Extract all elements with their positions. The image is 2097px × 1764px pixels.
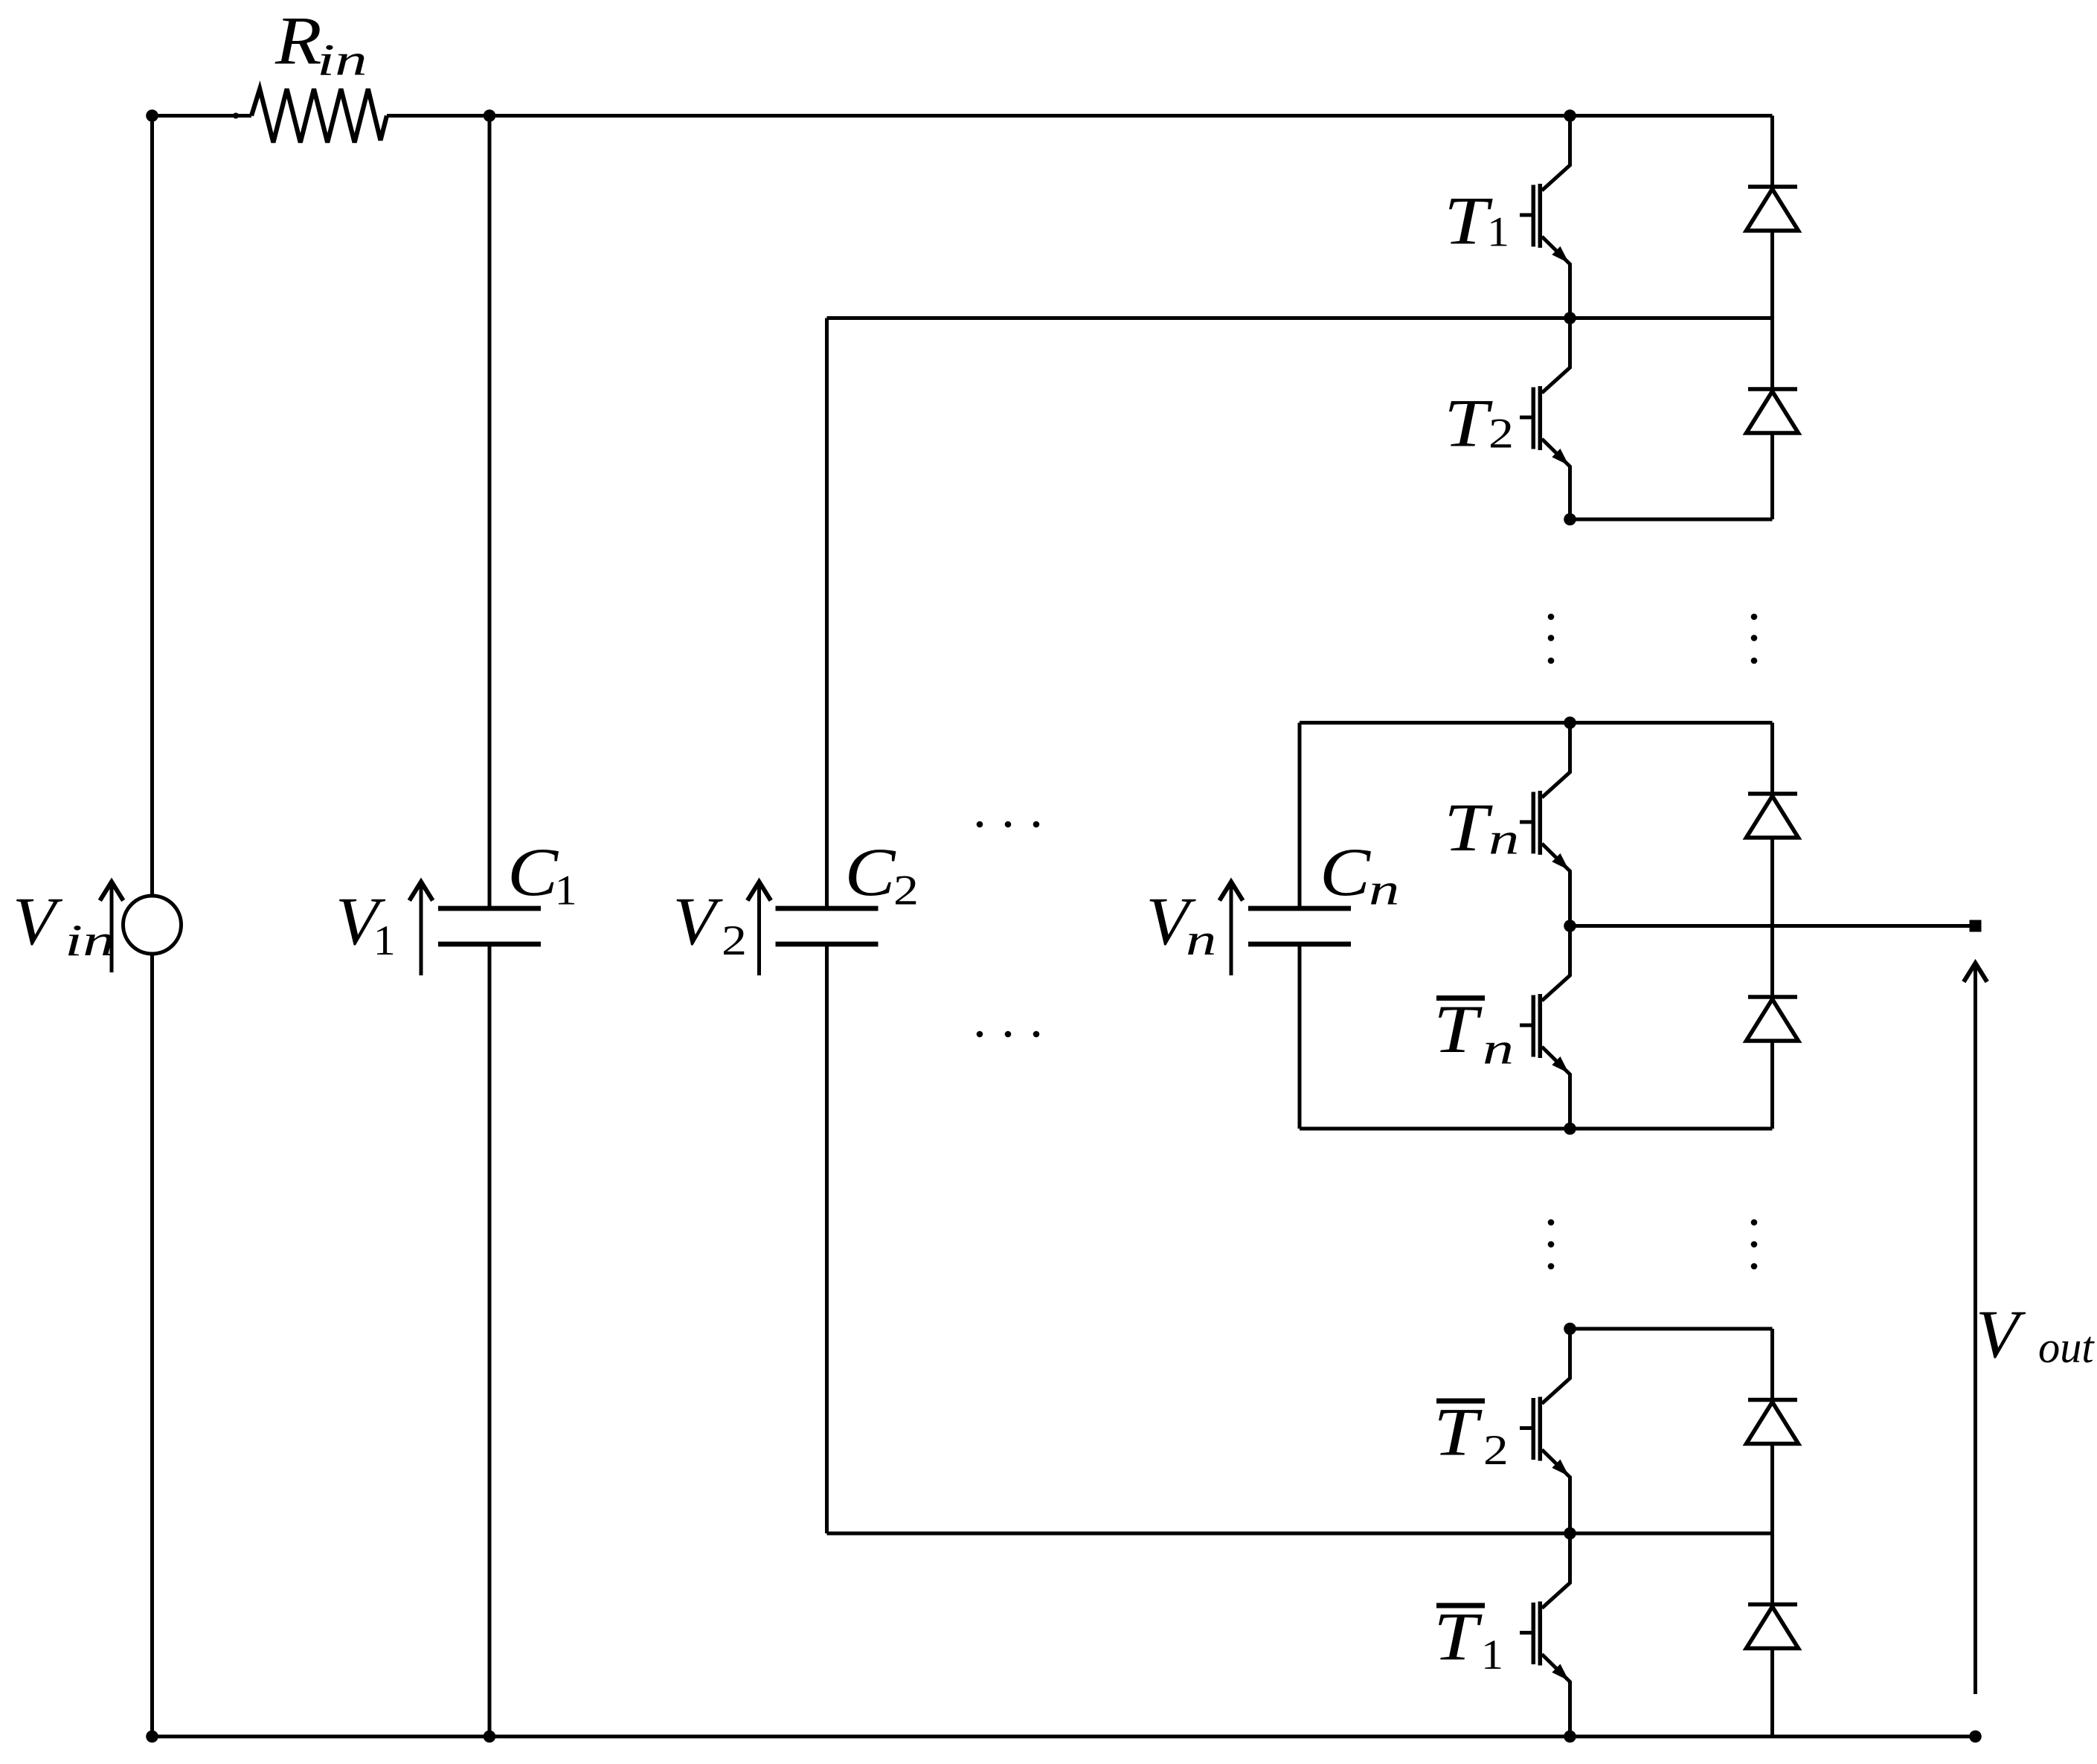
wire C2 column lower [825, 944, 829, 1533]
transistor T1 [1520, 116, 1570, 318]
svg-text:V: V [673, 883, 724, 959]
svg-text:T: T [1433, 991, 1483, 1067]
dots vertical left upper [1548, 614, 1555, 620]
svg-text:out: out [2038, 1323, 2095, 1372]
arrow V_out [1974, 966, 1977, 1695]
capacitor Cn [1248, 906, 1351, 911]
svg-text:n: n [1483, 1024, 1514, 1074]
svg-text:V: V [13, 883, 63, 959]
svg-text:2: 2 [1489, 411, 1514, 458]
wire Cn column lower [1298, 944, 1302, 1129]
label Tn-bar [1436, 995, 1485, 1001]
diode Dn-bar [1747, 926, 1799, 1129]
junction dot T2 emitter [1564, 513, 1576, 526]
wire top rail right of resistor [387, 114, 1773, 118]
transistor T1-bar [1520, 1533, 1570, 1736]
transistor Tn-bar [1520, 926, 1570, 1129]
svg-text:n: n [1369, 865, 1399, 914]
svg-text:1: 1 [1487, 209, 1509, 256]
svg-text:C: C [507, 834, 559, 910]
wire left rail upper [150, 116, 154, 897]
junction dot Tn/Tnbar [1564, 920, 1576, 932]
svg-text:V: V [1976, 1296, 2026, 1372]
wire mid rail C2-to-diode (T1/T2 junction) [827, 316, 1773, 320]
diode D2 [1747, 318, 1799, 520]
svg-text:T: T [1444, 183, 1493, 259]
wire C1 column lower [488, 944, 492, 1736]
svg-text:1: 1 [373, 917, 396, 964]
label T1-bar [1436, 1603, 1485, 1609]
svg-text:n: n [1186, 915, 1216, 964]
svg-text:1: 1 [555, 867, 577, 914]
wire output rail [1570, 924, 1973, 928]
svg-text:T: T [1444, 385, 1493, 461]
junction dot T2bar collector [1564, 1323, 1576, 1335]
junction dot T1/T2 [1564, 312, 1576, 324]
wire left rail lower [150, 954, 154, 1736]
junction dot top-left corner [146, 109, 158, 122]
transistor Tn [1520, 722, 1570, 926]
wire C1 column upper [488, 116, 492, 909]
junction dot Tnbar emitter [1564, 1123, 1576, 1135]
wire Cn box bottom rail [1300, 1127, 1773, 1131]
junction dot top rail at C1 [484, 109, 496, 122]
dots vertical right upper [1751, 614, 1758, 620]
capacitor C1 [438, 906, 541, 911]
svg-text:T: T [1433, 1394, 1483, 1470]
transistor T2-bar [1520, 1329, 1570, 1533]
diode D2-bar [1747, 1329, 1799, 1533]
svg-text:2: 2 [1483, 1427, 1509, 1474]
wire mid rail 2 C2-to-diode (T2bar/T1bar junction) [827, 1532, 1773, 1536]
label T2-bar [1436, 1399, 1485, 1404]
svg-text:T: T [1433, 1599, 1483, 1675]
arrow V1 [420, 884, 423, 975]
wire T2-bottom short rail [1570, 518, 1773, 522]
wire Cn column upper [1298, 722, 1302, 908]
wire T2bar top rail [1570, 1327, 1773, 1331]
svg-text:in: in [65, 916, 115, 965]
arrow V_in [110, 884, 114, 972]
arrow V2 [757, 884, 761, 975]
svg-text:T: T [1444, 789, 1493, 865]
wire bottom rail [150, 1735, 1976, 1739]
junction dot bottom-left corner [146, 1731, 158, 1743]
terminal dot bottom-right output [1969, 1731, 1982, 1743]
svg-text:2: 2 [722, 917, 747, 964]
svg-text:n: n [1489, 814, 1519, 863]
terminal square output [1970, 920, 1982, 932]
arrow Vn [1230, 884, 1233, 975]
svg-text:in: in [317, 36, 367, 85]
wire top rail left of resistor [150, 114, 251, 118]
capacitor C2 [776, 906, 879, 911]
diode D1-bar [1747, 1533, 1799, 1736]
source V_in circle [123, 896, 182, 954]
svg-text:R: R [274, 3, 322, 79]
dots vertical left lower [1548, 1219, 1555, 1226]
resistor R_in [251, 89, 387, 143]
wire C2 column upper [825, 318, 829, 909]
svg-text:1: 1 [1481, 1632, 1503, 1678]
dots vertical right lower [1751, 1219, 1758, 1226]
anchor dot resistor input [233, 113, 239, 119]
dots horizontal lower [977, 1031, 983, 1038]
wire Cn box top rail [1300, 721, 1773, 725]
svg-text:2: 2 [893, 867, 919, 914]
svg-text:C: C [1320, 834, 1372, 910]
junction dot T2bar/T1bar [1564, 1527, 1576, 1540]
junction dot bottom rail at C1 [484, 1731, 496, 1743]
junction dot top rail at T1 collector [1564, 109, 1576, 122]
junction dot Tn collector [1564, 716, 1576, 729]
transistor T2 [1520, 318, 1570, 520]
dots horizontal upper [977, 821, 983, 828]
diode D1 [1747, 116, 1799, 318]
svg-text:C: C [845, 834, 897, 910]
diode Dn [1747, 722, 1799, 926]
junction dot bottom rail at T-column [1564, 1731, 1576, 1743]
